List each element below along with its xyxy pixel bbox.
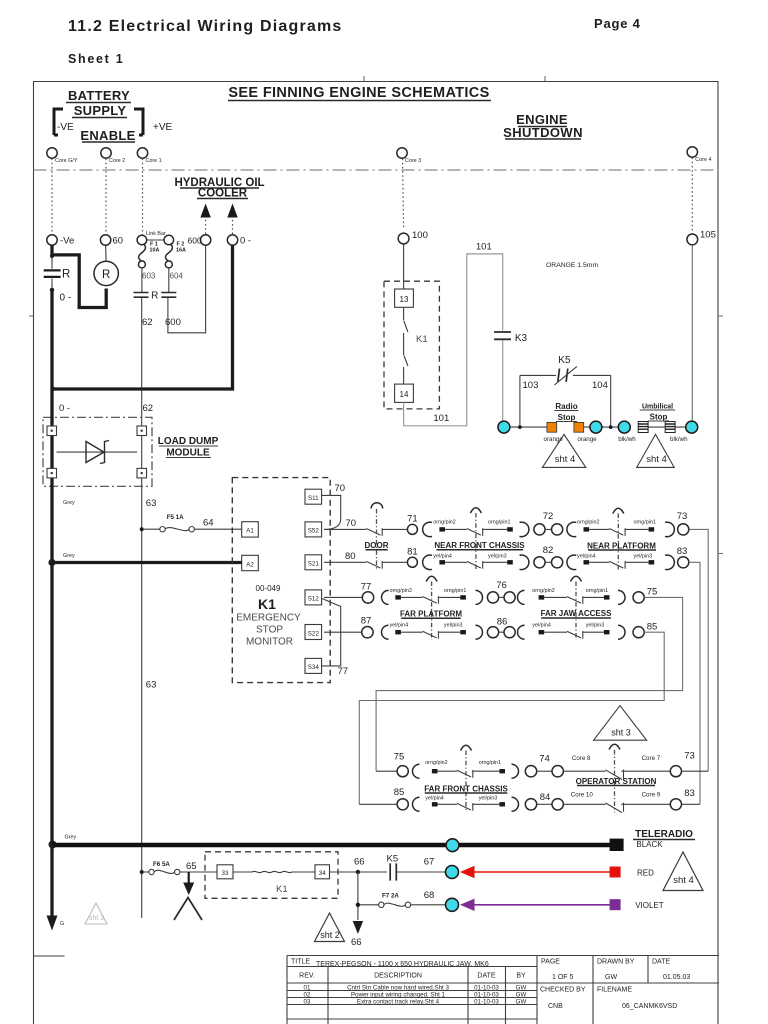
row4 connector arc right B [618, 625, 625, 639]
node 105 [687, 234, 698, 245]
row3 connector arc left A [382, 590, 389, 604]
row6 FFC blade [457, 803, 473, 811]
node 73 row1 [678, 524, 689, 535]
svg-text:Stop: Stop [558, 413, 576, 422]
svg-text:01-10-03: 01-10-03 [474, 999, 499, 1006]
capacitor K3 [494, 332, 511, 339]
row2 wire NP-pin [625, 561, 649, 563]
node pair 74 [525, 766, 536, 777]
pin yel/pin3 row2 B [649, 560, 655, 564]
bracket right [134, 109, 143, 135]
terminal square top-left [47, 426, 57, 436]
row2 door blade [366, 561, 382, 569]
svg-text:72: 72 [543, 511, 554, 522]
svg-text:PAGE: PAGE [541, 959, 560, 966]
svg-text:COOLER: COOLER [198, 188, 248, 200]
node pair 84 [525, 799, 536, 810]
row6 wire start [359, 803, 397, 805]
svg-text:85: 85 [394, 787, 405, 798]
svg-text:GW: GW [516, 999, 527, 1006]
row1 wire pin-NP blade [589, 528, 609, 530]
junction 0- on bus [51, 387, 55, 391]
svg-text:10A: 10A [150, 248, 160, 254]
svg-text:orng/pin1: orng/pin1 [586, 588, 608, 594]
svg-text:ENABLE: ENABLE [80, 128, 135, 143]
svg-text:11.2 Electrical Wiring Diagram: 11.2 Electrical Wiring Diagrams [68, 18, 343, 35]
node 71 [407, 524, 417, 534]
contact blades K1 [404, 307, 408, 384]
svg-text:01: 01 [304, 985, 311, 992]
terminal square top-right [137, 426, 147, 436]
row3 connector arc right B [618, 590, 625, 604]
wire 34 to 66 [330, 871, 388, 873]
node 85 row6 [397, 799, 408, 810]
svg-text:orng/pin2: orng/pin2 [433, 520, 455, 526]
wire core 2 dotted drop [105, 159, 107, 236]
wire S11 to S52 loop [322, 495, 341, 529]
sheet ref triangle sht4 umbilical [637, 434, 675, 467]
wire teleradio black [52, 843, 610, 848]
node 75 row5 [397, 766, 408, 777]
wire bus to bottom arrow [50, 845, 53, 916]
svg-text:86: 86 [497, 617, 508, 628]
terminal 34 [315, 865, 330, 879]
ground arrow bus [47, 916, 58, 931]
sheet ref triangle sht4 radio [542, 434, 585, 467]
svg-text:yel/pin3: yel/pin3 [586, 622, 605, 628]
svg-text:orange: orange [577, 436, 597, 443]
pin orng/pin1 row3 A [460, 595, 466, 599]
svg-text:FILENAME: FILENAME [597, 987, 632, 994]
wire red [474, 871, 610, 873]
frame tick marks [29, 76, 723, 554]
wire -Ve bus down [51, 279, 53, 290]
svg-text:64: 64 [203, 518, 214, 529]
svg-text:sht 3: sht 3 [611, 728, 631, 738]
svg-text:NEAR PLATFORM: NEAR PLATFORM [587, 541, 656, 550]
pin yel/pin4 row6 [432, 802, 438, 806]
svg-text:S52: S52 [308, 528, 320, 535]
svg-text:Core 3: Core 3 [405, 158, 421, 164]
coil K1 [233, 871, 315, 872]
wire S12 to S34 loop [322, 599, 341, 666]
svg-text:FAR FRONT CHASSIS: FAR FRONT CHASSIS [424, 784, 508, 793]
svg-text:Core 8: Core 8 [572, 755, 591, 762]
pin yel/pin4 row4 B [539, 630, 545, 634]
pin yel/pin4 row4 A [395, 630, 401, 634]
svg-text:BATTERY: BATTERY [68, 88, 130, 103]
svg-text:13: 13 [400, 295, 409, 304]
terminal A1 [242, 522, 259, 537]
svg-text:sht 4: sht 4 [646, 454, 667, 465]
svg-text:sht 4: sht 4 [555, 454, 576, 465]
wire bus through module [50, 392, 53, 563]
svg-text:GW: GW [516, 992, 527, 999]
svg-text:Core 1: Core 1 [146, 158, 162, 164]
load dump module box [43, 417, 152, 486]
svg-text:Core 4: Core 4 [695, 157, 711, 163]
svg-text:CNB: CNB [548, 1003, 563, 1010]
svg-text:87: 87 [361, 616, 372, 627]
svg-text:75: 75 [647, 587, 658, 598]
node Core 3 [397, 148, 407, 158]
row2 wire door-81 [382, 561, 407, 563]
pin orng/pin2 row3 B [539, 595, 545, 599]
svg-text:A2: A2 [246, 561, 254, 568]
wire violet [474, 904, 610, 906]
svg-text:TELERADIO: TELERADIO [635, 829, 693, 840]
svg-text:STOP: STOP [256, 625, 283, 636]
wire bus down to teleradio [50, 563, 53, 846]
node cyan violet row [446, 898, 459, 911]
node 83 row2 [678, 557, 689, 568]
svg-text:105: 105 [700, 230, 716, 241]
svg-text:R: R [62, 269, 70, 281]
svg-text:yel/pin3: yel/pin3 [444, 622, 463, 628]
row2 connector arc right A [520, 555, 529, 570]
arrow 66 down [353, 921, 363, 934]
connector blk/wh 1 [618, 422, 648, 444]
bracket left [54, 109, 63, 135]
pin orng/pin1 row1 B [649, 527, 655, 531]
row1 wire door-71 [382, 528, 407, 530]
zener diode [57, 451, 138, 453]
svg-text:84: 84 [540, 792, 551, 803]
row1 connector arc right A [520, 522, 529, 537]
junction bus A2 [48, 559, 55, 566]
svg-text:sht 2: sht 2 [320, 930, 340, 940]
terminal A2 [242, 555, 259, 570]
node 0- right [227, 235, 237, 245]
connector violet square [610, 899, 621, 910]
node 60 [100, 235, 110, 245]
row1 connector arc left B [567, 522, 576, 537]
svg-text:DRAWN BY: DRAWN BY [597, 959, 635, 966]
switch linkage FAR JAW ACCESS [571, 576, 582, 581]
svg-text:81: 81 [407, 547, 418, 558]
svg-text:33: 33 [222, 870, 229, 877]
sheet ref chevron 65 [174, 898, 202, 921]
row6 wire core9 [621, 803, 670, 805]
svg-text:NEAR FRONT CHASSIS: NEAR FRONT CHASSIS [434, 541, 525, 550]
svg-text:00-049: 00-049 [256, 584, 281, 593]
junction bus teleradio [49, 841, 57, 849]
row1 wire S52-door [324, 528, 366, 530]
resistor R battery (capacitor bars) left [50, 245, 53, 256]
row6 wire blade-pin [473, 803, 500, 805]
wire A2 thick [52, 561, 242, 564]
terminal S12 [305, 590, 322, 605]
svg-text:0 -: 0 - [240, 236, 251, 247]
terminal 14 [395, 384, 414, 402]
node 73 row5 [670, 766, 681, 777]
terminal S34 [305, 658, 322, 673]
switch linkage NEAR FRONT CHASSIS [470, 508, 481, 513]
row6 connector arc left [413, 797, 420, 811]
row6 connector arc right [512, 797, 519, 811]
svg-text:-VE: -VE [57, 122, 74, 133]
svg-text:blk/wh: blk/wh [618, 436, 636, 443]
pin yel/pin3 row4 A [460, 630, 466, 634]
svg-text:Power input wiring changed. Sh: Power input wiring changed. Sht 1 [351, 992, 445, 999]
svg-text:101: 101 [433, 413, 449, 424]
svg-text:71: 71 [407, 514, 418, 525]
node 77 [362, 592, 373, 603]
svg-text:S21: S21 [308, 561, 320, 568]
row2 NP blade [609, 561, 625, 569]
sheet ref triangle sht4 teleradio [663, 852, 703, 891]
svg-text:GW: GW [605, 974, 617, 981]
node cyan radio [590, 421, 602, 433]
svg-text:83: 83 [684, 788, 695, 799]
svg-text:63: 63 [146, 680, 157, 691]
pin yel/pin3 row4 B [604, 630, 610, 634]
svg-text:16A: 16A [176, 248, 186, 254]
svg-text:MODULE: MODULE [166, 448, 210, 459]
row4 wire blade-pin [438, 631, 463, 633]
row2 NFC blade [467, 561, 483, 569]
svg-text:80: 80 [345, 551, 356, 562]
pin orng/pin2 row3 A [395, 595, 401, 599]
svg-text:TEREX-PEGSON - 1100 x 650 HYDR: TEREX-PEGSON - 1100 x 650 HYDRAULIC JAW.… [316, 961, 489, 968]
connector black square [610, 839, 624, 851]
svg-text:F5 1A: F5 1A [167, 514, 184, 521]
row1 connector arc left A [423, 522, 432, 537]
svg-text:Page 4: Page 4 [594, 16, 641, 31]
svg-text:100: 100 [412, 230, 428, 241]
svg-text:63: 63 [146, 498, 157, 509]
wire K5 to cyan 67 [396, 871, 445, 873]
svg-text:K1: K1 [276, 884, 288, 895]
switch linkage FAR PLATFORM [426, 576, 437, 581]
svg-text:Core 9: Core 9 [642, 792, 661, 799]
row6 wire pin-FFC blade [438, 803, 458, 805]
node 100 [398, 233, 409, 244]
row3 wire S12-77 [324, 596, 362, 598]
junction 103 [518, 425, 522, 429]
pin orng/pin1 row1 A [507, 527, 513, 531]
svg-text:83: 83 [677, 546, 688, 557]
svg-text:orng/pin1: orng/pin1 [444, 588, 466, 594]
svg-text:sht 3: sht 3 [89, 915, 104, 922]
svg-text:14: 14 [400, 390, 409, 399]
node 600 [200, 235, 210, 245]
svg-text:yel/pin3: yel/pin3 [488, 554, 507, 560]
terminal 33 [217, 865, 233, 879]
relay contact K1 (13-14) box [384, 281, 439, 409]
svg-text:01-10-03: 01-10-03 [474, 985, 499, 992]
svg-text:yel/pin4: yel/pin4 [433, 554, 452, 560]
node cyan red row [446, 866, 459, 879]
title block [287, 956, 719, 1024]
svg-text:70: 70 [346, 518, 357, 529]
svg-text:orng/pin1: orng/pin1 [488, 520, 510, 526]
wire core 4 dotted drop [691, 158, 693, 235]
row3 connector arc right A [476, 590, 483, 604]
svg-text:sht 4: sht 4 [673, 875, 694, 886]
row2 wire pin-NP blade [589, 561, 609, 563]
svg-text:DOOR: DOOR [365, 541, 389, 550]
wire net 75 [376, 597, 682, 771]
terminal S52 [305, 522, 322, 537]
terminal 13 [395, 289, 414, 307]
svg-text:Extra contact track relay.Sht: Extra contact track relay.Sht 4 [357, 999, 440, 1006]
svg-text:Sheet 1: Sheet 1 [68, 52, 124, 66]
row2 wire pin-blade [445, 561, 467, 563]
wire net 73 [689, 529, 708, 771]
svg-text:ORANGE 1.5mm: ORANGE 1.5mm [546, 262, 598, 269]
junction 66 [356, 870, 360, 874]
row5 wire start [376, 770, 397, 772]
node -Ve [47, 235, 57, 245]
wire K3 down [502, 341, 504, 422]
svg-text:Core 7: Core 7 [642, 755, 661, 762]
row1 door blade [366, 528, 382, 536]
svg-text:S12: S12 [308, 596, 320, 603]
wire 62 long vertical [141, 298, 143, 919]
svg-text:yel/pin4: yel/pin4 [532, 622, 551, 628]
svg-text:70: 70 [335, 483, 346, 494]
node 87 [362, 627, 373, 638]
arrow up to cooler left [205, 216, 207, 234]
pin orng/pin2 row1 B [584, 527, 590, 531]
connector red square [610, 867, 621, 878]
row2 wire S21-door [324, 561, 366, 563]
svg-text:76: 76 [496, 580, 507, 591]
pin orng/pin2 row1 A [439, 527, 445, 531]
svg-text:73: 73 [677, 511, 688, 522]
node 83 row6 [670, 799, 681, 810]
node cyan 105 [686, 421, 698, 433]
row5 connector arc left [413, 764, 420, 778]
row3 FP blade [423, 596, 439, 604]
pin yel/pin3 row2 A [507, 560, 513, 564]
svg-text:S11: S11 [308, 495, 319, 502]
motor R circle [94, 261, 118, 285]
row5 wire end [682, 770, 709, 772]
row1 wire pin-blade [445, 528, 467, 530]
svg-text:77: 77 [361, 582, 372, 593]
svg-text:yel/pin4: yel/pin4 [425, 796, 444, 802]
row3 wire blade-pin [583, 596, 604, 598]
node 75 row3 [633, 592, 644, 603]
branch arrow 65 [188, 872, 190, 883]
capacitor R 62 (left bars) [134, 293, 149, 298]
svg-text:02: 02 [304, 992, 311, 999]
row5 wire blade-pin [473, 770, 500, 772]
svg-text:orng/pin1: orng/pin1 [634, 520, 656, 526]
dash-dot separation line [34, 169, 719, 171]
svg-text:Stop: Stop [650, 413, 668, 422]
terminal square bottom-left [47, 468, 57, 478]
svg-text:Core 10: Core 10 [571, 792, 594, 799]
row3 FJA blade [567, 596, 583, 604]
arrow violet [460, 899, 475, 911]
row5 FFC blade [457, 770, 473, 778]
svg-text:68: 68 [424, 890, 435, 901]
wire link bar [147, 239, 164, 241]
row4 FJA blade [567, 631, 583, 639]
wire -Ve to motor R loop [52, 255, 106, 308]
node pair 76 [487, 592, 498, 603]
row1 NFC blade [467, 528, 483, 536]
svg-text:82: 82 [543, 545, 554, 556]
wire 600 riser [168, 245, 206, 333]
svg-text:+VE: +VE [153, 122, 173, 133]
terminal S22 [305, 625, 322, 640]
svg-text:orng/pin2: orng/pin2 [390, 588, 412, 594]
svg-text:66: 66 [351, 937, 362, 948]
svg-text:85: 85 [647, 622, 658, 633]
svg-text:orng/pin1: orng/pin1 [479, 760, 501, 766]
node Core 2 [101, 148, 111, 158]
svg-text:103: 103 [523, 380, 539, 391]
pin orng/pin2 row5 [432, 769, 438, 773]
relay K1 emergency stop monitor box [232, 478, 330, 683]
wire 60 to motor R [105, 245, 108, 261]
svg-text:62: 62 [142, 317, 153, 328]
svg-text:77: 77 [338, 666, 349, 677]
svg-text:06_CANMK6VSD: 06_CANMK6VSD [622, 1003, 677, 1010]
svg-text:65: 65 [186, 861, 197, 872]
node pair 72 [534, 524, 545, 535]
node Core G/Y [47, 148, 57, 158]
switch linkage FAR FRONT CHASSIS [461, 745, 472, 750]
pin yel/pin4 row2 B [584, 560, 590, 564]
row2 connector arc right B [665, 555, 674, 570]
svg-text:S34: S34 [308, 664, 320, 671]
row4 wire pin-FJA blade [544, 631, 567, 633]
node pair 86 [487, 627, 498, 638]
svg-text:FAR JAW ACCESS: FAR JAW ACCESS [541, 609, 612, 618]
wire 101 route [404, 254, 503, 426]
svg-text:GW: GW [516, 985, 527, 992]
svg-text:F7 2A: F7 2A [382, 893, 399, 900]
row2 connector arc left B [567, 555, 576, 570]
arrow up to cooler right [232, 216, 234, 234]
svg-text:FAR PLATFORM: FAR PLATFORM [400, 610, 462, 619]
pin orng/pin1 row3 B [604, 595, 610, 599]
svg-text:600: 600 [188, 236, 202, 246]
row1 connector arc right B [665, 522, 674, 537]
row5 wire core8 [563, 770, 605, 772]
svg-text:orng/pin2: orng/pin2 [532, 588, 554, 594]
row4 wire blade-pin [583, 631, 604, 633]
svg-text:K5: K5 [387, 854, 399, 865]
terminal square bottom-right [137, 468, 147, 478]
svg-text:VIOLET: VIOLET [635, 901, 664, 910]
switch linkage DOOR [371, 503, 383, 509]
junction 104 [609, 425, 613, 429]
sheet ref triangle sht2 [315, 913, 345, 942]
row1 wire NP-pin [625, 528, 649, 530]
svg-text:Grey: Grey [65, 835, 77, 841]
row1 NP blade [609, 528, 625, 536]
wire 105 down [691, 245, 693, 422]
node link bar right [164, 235, 174, 245]
svg-text:0 -: 0 - [60, 293, 72, 304]
node cyan K3 [498, 421, 510, 433]
node cyan black row [446, 839, 459, 852]
terminal S21 [305, 555, 322, 570]
svg-text:REV.: REV. [299, 973, 315, 980]
node 81 [407, 557, 417, 567]
svg-text:73: 73 [684, 751, 695, 762]
svg-text:SEE FINNING ENGINE SCHEMATICS: SEE FINNING ENGINE SCHEMATICS [228, 85, 489, 101]
wire core G/Y dotted drop [51, 159, 53, 236]
svg-text:67: 67 [424, 857, 435, 868]
svg-text:62: 62 [143, 403, 154, 414]
